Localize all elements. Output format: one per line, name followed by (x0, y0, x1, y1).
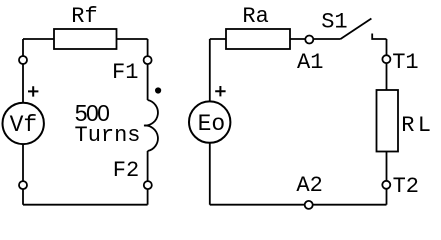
svg-text:Rf: Rf (71, 4, 97, 29)
wire left-circuit top: resistor Rf to right corner (117, 38, 148, 40)
terminal bottom-left of Vf loop (19, 181, 27, 189)
wire right-circuit bottom (210, 204, 387, 206)
polarity + of Eo (215, 86, 225, 96)
svg-text:Ra: Ra (242, 4, 268, 29)
terminal F1 (144, 56, 152, 64)
wire left-circuit right side: corner down to coil top (147, 39, 149, 100)
phase dot (155, 87, 161, 93)
svg-text:RL: RL (401, 113, 434, 138)
terminal F2 (144, 181, 152, 189)
svg-text:A2: A2 (296, 173, 322, 198)
wire left-circuit top: left corner to resistor Rf (23, 38, 54, 40)
wire right-circuit right side: contact down to resistor RL (386, 39, 388, 90)
terminal A1 (305, 36, 313, 44)
svg-text:Vf: Vf (10, 112, 38, 138)
terminal T2 (382, 181, 390, 189)
resistor RL (377, 90, 399, 152)
wire right-circuit left side (209, 39, 211, 205)
svg-text:Eo: Eo (198, 111, 226, 137)
wire right-circuit top: left corner to resistor Ra (210, 38, 226, 40)
resistor Rf (54, 29, 117, 49)
wire left-circuit left side (top corner to bottom) (22, 39, 24, 205)
wire left-circuit bottom (23, 204, 148, 206)
source Eo (189, 101, 230, 142)
svg-text:Turns: Turns (75, 123, 141, 148)
resistor Ra (226, 29, 290, 49)
polarity + of Vf (28, 86, 38, 96)
svg-text:F1: F1 (112, 60, 138, 85)
switch S1 blade (341, 19, 372, 40)
terminal A2 (305, 201, 313, 209)
wire right-circuit right side: resistor RL to bottom wire (386, 152, 388, 205)
svg-text:T1: T1 (392, 50, 418, 75)
svg-text:T2: T2 (393, 174, 419, 199)
svg-text:A1: A1 (297, 50, 323, 75)
terminal T1 (382, 55, 390, 63)
wire right-circuit top: resistor Ra to switch pivot (290, 38, 341, 40)
inductor L1 500 turns coil (144, 100, 158, 151)
terminal top-left of Vf loop (19, 56, 27, 64)
switch S1 fixed contact hook (372, 34, 386, 40)
svg-text:S1: S1 (321, 10, 347, 35)
svg-text:F2: F2 (113, 158, 139, 183)
source Vf (3, 103, 44, 144)
wire left-circuit right side: coil bottom down to bottom wire (147, 151, 149, 205)
label 500 Turns (75, 100, 141, 148)
